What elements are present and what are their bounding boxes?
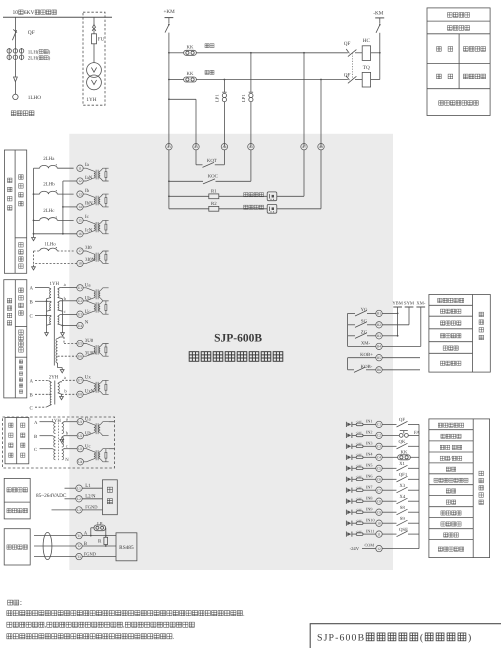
svg-text:YBM: YBM bbox=[392, 300, 402, 305]
terminal U3 bbox=[77, 311, 83, 317]
terminal C6 bbox=[376, 476, 382, 482]
optocoupler (close monitor) bbox=[267, 192, 277, 201]
opto input IN4 bbox=[345, 455, 347, 460]
svg-text:C: C bbox=[30, 314, 33, 320]
terminal C8 bbox=[376, 498, 382, 504]
svg-text:N: N bbox=[85, 320, 89, 326]
svg-text:U1: U1 bbox=[78, 420, 82, 424]
secondary winding c bbox=[58, 317, 59, 325]
svg-text:KOC: KOC bbox=[208, 174, 218, 180]
terminal L1 bbox=[76, 485, 82, 491]
PT branch dashed box bbox=[83, 12, 105, 105]
B wire bbox=[82, 545, 116, 547]
ground bbox=[33, 235, 35, 237]
svg-text:ZG: ZG bbox=[361, 330, 368, 336]
svg-text:SYM: SYM bbox=[404, 300, 414, 305]
terminal U3 (alt) bbox=[77, 446, 83, 452]
terminal C9 bbox=[376, 509, 382, 515]
svg-text:1LH(: 1LH( bbox=[28, 49, 39, 55]
terminal B1 bbox=[376, 310, 382, 316]
opto input IN9 bbox=[345, 510, 347, 515]
svg-text:12: 12 bbox=[377, 547, 381, 551]
wire bbox=[14, 60, 16, 77]
primary winding C bbox=[50, 316, 52, 317]
comm cable wires bbox=[34, 535, 76, 537]
svg-text:16: 16 bbox=[78, 232, 82, 236]
svg-text:FGND: FGND bbox=[84, 551, 97, 556]
notes bbox=[8, 600, 13, 605]
svg-text:IN1: IN1 bbox=[366, 419, 373, 424]
svg-text:17: 17 bbox=[78, 249, 82, 253]
svg-text:KK: KK bbox=[187, 71, 194, 77]
feeder wire bbox=[14, 17, 16, 49]
svg-text:QSE: QSE bbox=[399, 527, 408, 533]
input transformer Ia bbox=[83, 168, 94, 171]
terminal B3 bbox=[376, 333, 382, 339]
terminal A(485) bbox=[76, 532, 82, 538]
svg-text:2LHc: 2LHc bbox=[43, 208, 55, 214]
label box voltage/measuring bbox=[5, 418, 29, 464]
title block border bbox=[310, 623, 501, 625]
L1 wire bbox=[65, 487, 76, 489]
terminal U2 (alt) bbox=[77, 433, 83, 439]
link LP1 to A2 bbox=[241, 94, 246, 102]
terminal L2 bbox=[76, 496, 82, 502]
label main diagram bbox=[11, 111, 16, 116]
svg-text:IN9: IN9 bbox=[366, 506, 373, 511]
label box: comm interface bbox=[4, 529, 30, 565]
svg-text:13: 13 bbox=[78, 192, 82, 196]
label box: working power / grounding bbox=[4, 478, 30, 519]
PT core bbox=[53, 286, 55, 366]
terminal 10 bbox=[376, 520, 382, 526]
svg-text:C: C bbox=[30, 405, 33, 411]
CT 1LH (measuring) bbox=[7, 49, 11, 53]
svg-text:1LHO: 1LHO bbox=[28, 95, 42, 101]
svg-text:C6: C6 bbox=[377, 478, 381, 482]
core bbox=[54, 381, 56, 405]
svg-text:3U0: 3U0 bbox=[85, 338, 94, 344]
svg-text:C2: C2 bbox=[377, 434, 381, 438]
terminal B(485) bbox=[76, 543, 82, 549]
svg-text:C1: C1 bbox=[377, 423, 381, 427]
svg-text:C5: C5 bbox=[377, 467, 381, 471]
svg-text:2LH(: 2LH( bbox=[28, 56, 39, 62]
svg-text:U4: U4 bbox=[78, 324, 82, 328]
ground bbox=[62, 330, 64, 332]
primary winding A-B bbox=[49, 381, 52, 383]
terminal L3 bbox=[76, 507, 82, 513]
PT tap wire bbox=[93, 17, 95, 24]
terminal B4 bbox=[376, 343, 382, 349]
cable shield ellipse bbox=[43, 532, 52, 559]
svg-text:B6: B6 bbox=[377, 368, 381, 372]
svg-text:XM-: XM- bbox=[416, 300, 425, 305]
svg-text:A: A bbox=[30, 379, 34, 385]
opto input IN6 bbox=[345, 477, 347, 482]
primary neutral bus bbox=[46, 299, 48, 331]
secondary winding a bbox=[58, 289, 59, 297]
svg-text:A3: A3 bbox=[194, 145, 198, 149]
svg-text:SG: SG bbox=[361, 319, 368, 325]
svg-text:B3: B3 bbox=[377, 334, 381, 338]
terminal U4 (alt) bbox=[77, 459, 83, 465]
terminal U4 bbox=[77, 322, 83, 328]
svg-text:U2: U2 bbox=[78, 299, 82, 303]
zero-seq CT 1LH0 bbox=[13, 94, 18, 99]
svg-text:QF: QF bbox=[344, 41, 351, 47]
svg-text:S9: S9 bbox=[400, 516, 406, 522]
secondary windings bbox=[62, 423, 64, 433]
PT 1YH two windings bbox=[87, 63, 102, 78]
svg-text:IN3: IN3 bbox=[366, 441, 373, 446]
wire to A8 bbox=[320, 79, 322, 81]
svg-text:+KM: +KM bbox=[164, 9, 176, 15]
input common bus bbox=[418, 424, 420, 548]
svg-text:-24V: -24V bbox=[350, 546, 360, 551]
svg-text:c: c bbox=[66, 444, 68, 449]
svg-text:11: 11 bbox=[377, 532, 381, 536]
svg-text:A8: A8 bbox=[319, 145, 323, 149]
L2 wire bbox=[65, 498, 76, 500]
RS485 module box bbox=[116, 533, 137, 561]
terminal FGND(485) bbox=[76, 553, 82, 559]
trip wire (fen zha) bbox=[168, 79, 170, 81]
svg-text:B4: B4 bbox=[377, 345, 381, 349]
terminal A3 bbox=[193, 144, 199, 150]
svg-text:IN7: IN7 bbox=[366, 484, 373, 489]
terminal U1 bbox=[77, 285, 83, 291]
svg-text:(: ( bbox=[420, 632, 424, 643]
svg-text:IN5: IN5 bbox=[366, 463, 373, 468]
optocoupler (open monitor) bbox=[267, 204, 277, 213]
svg-text:S8: S8 bbox=[400, 505, 406, 511]
input transformer (alt) Ucn bbox=[84, 449, 94, 452]
device body SJP-600B (shaded block) bbox=[69, 134, 393, 570]
ground bbox=[61, 368, 63, 370]
control legend table bbox=[427, 8, 490, 116]
svg-text:B1: B1 bbox=[377, 312, 381, 316]
CT star point bus bbox=[33, 168, 35, 235]
wire to A7 bbox=[303, 52, 305, 54]
svg-text:a: a bbox=[64, 375, 66, 380]
svg-text:B: B bbox=[34, 434, 37, 440]
input transformer 3I0 bbox=[83, 251, 94, 254]
svg-text:U3: U3 bbox=[78, 447, 82, 451]
primary winding A bbox=[49, 288, 52, 290]
earth wire bbox=[52, 509, 76, 511]
terminal B6 bbox=[376, 367, 382, 373]
svg-text:L3: L3 bbox=[77, 508, 81, 512]
svg-text:FGND: FGND bbox=[85, 505, 98, 510]
svg-text:3I0: 3I0 bbox=[85, 245, 92, 251]
svg-text:1LHo: 1LHo bbox=[44, 241, 56, 247]
input transformer Ubc bbox=[83, 301, 94, 304]
terminal A7 bbox=[301, 144, 307, 150]
ground bbox=[46, 330, 48, 332]
svg-text:IN4: IN4 bbox=[366, 452, 373, 457]
terminal U7 bbox=[77, 377, 83, 383]
terminal 11 bbox=[77, 165, 83, 171]
power module box bbox=[103, 480, 118, 515]
svg-text:C9: C9 bbox=[377, 510, 381, 514]
svg-text:LP1: LP1 bbox=[215, 94, 220, 102]
svg-text:c: c bbox=[64, 309, 66, 314]
svg-text:C: C bbox=[34, 447, 37, 453]
svg-text:1YH: 1YH bbox=[86, 97, 96, 103]
A wire bbox=[82, 535, 116, 537]
primary windings bbox=[53, 422, 56, 424]
opto input IN5 bbox=[345, 466, 347, 471]
svg-text:U4: U4 bbox=[78, 460, 82, 464]
cable arrow bbox=[14, 77, 18, 82]
input transformer (alt) Uab bbox=[84, 422, 94, 425]
terminal C5 bbox=[376, 465, 382, 471]
svg-text:RS485: RS485 bbox=[119, 545, 134, 551]
svg-text:C4: C4 bbox=[377, 456, 381, 460]
disconnect arrows bbox=[92, 24, 96, 27]
FGND wire bbox=[82, 556, 116, 558]
phase C return bbox=[34, 233, 77, 235]
terminal 13 bbox=[77, 191, 83, 197]
svg-text:QF1: QF1 bbox=[399, 472, 408, 478]
svg-text:U3: U3 bbox=[78, 312, 82, 316]
svg-text:A1: A1 bbox=[167, 145, 171, 149]
svg-text:Ib: Ib bbox=[85, 188, 90, 194]
terminal 14 bbox=[77, 204, 83, 210]
bus stubs bbox=[393, 306, 402, 308]
svg-text:IN6: IN6 bbox=[366, 474, 373, 479]
opto input IN2 bbox=[345, 433, 347, 438]
svg-text:T2: T2 bbox=[77, 544, 81, 548]
svg-text:11: 11 bbox=[78, 166, 82, 170]
terminal A4 bbox=[221, 144, 227, 150]
svg-text:C8: C8 bbox=[377, 499, 381, 503]
terminal A1 bbox=[166, 144, 172, 150]
terminal C7 bbox=[376, 487, 382, 493]
svg-text:Ux: Ux bbox=[85, 375, 92, 381]
svg-text:YG: YG bbox=[361, 307, 368, 313]
terminal 16 bbox=[77, 231, 83, 237]
knife switch bbox=[165, 24, 169, 33]
svg-text:：: ： bbox=[19, 600, 25, 607]
svg-text:QF: QF bbox=[399, 417, 405, 423]
svg-text:IN10: IN10 bbox=[366, 517, 375, 522]
link LP1 to A4 bbox=[215, 94, 220, 102]
svg-text:A2: A2 bbox=[249, 145, 253, 149]
svg-text:U2: U2 bbox=[78, 434, 82, 438]
primary winding B-C bbox=[49, 393, 52, 395]
common bus for signal contacts bbox=[347, 313, 349, 346]
switch input table bbox=[429, 419, 490, 558]
svg-text:SJP-600B: SJP-600B bbox=[214, 333, 262, 345]
CT 2LH (protection) bbox=[7, 55, 11, 59]
svg-text:KOB-: KOB- bbox=[361, 364, 373, 370]
svg-text:QF: QF bbox=[28, 30, 35, 36]
svg-text:U8: U8 bbox=[78, 393, 82, 397]
label box: current circuit bbox=[4, 150, 26, 273]
svg-text:IN2: IN2 bbox=[366, 430, 373, 435]
opto input IN11 bbox=[345, 532, 347, 537]
phase A return bbox=[63, 180, 77, 182]
svg-text:T3: T3 bbox=[77, 555, 81, 559]
terminal U6 bbox=[77, 353, 83, 359]
svg-text:12: 12 bbox=[78, 179, 82, 183]
svg-text:15: 15 bbox=[78, 219, 82, 223]
bus droppers bbox=[397, 307, 399, 336]
svg-text:-KM: -KM bbox=[373, 10, 383, 16]
terminal U5 bbox=[77, 340, 83, 346]
terminal U2 bbox=[77, 298, 83, 304]
svg-text:A: A bbox=[34, 420, 38, 426]
svg-text:6KV: 6KV bbox=[24, 10, 35, 16]
svg-text:TQ: TQ bbox=[363, 65, 370, 71]
svg-text:LP1: LP1 bbox=[241, 94, 246, 102]
svg-text:U7: U7 bbox=[78, 379, 82, 383]
svg-text:IN8: IN8 bbox=[366, 495, 373, 500]
svg-text:T1: T1 bbox=[77, 534, 81, 538]
terminal A2 bbox=[248, 144, 254, 150]
output circuit table bbox=[429, 295, 490, 373]
input transformer Ic bbox=[83, 220, 94, 223]
terminal B5 bbox=[376, 355, 382, 361]
svg-text:FU: FU bbox=[98, 37, 105, 43]
terminal 17 bbox=[77, 248, 83, 254]
close wire (he zha) bbox=[168, 52, 170, 54]
secondary winding x bbox=[58, 382, 62, 384]
terminal 18 bbox=[77, 260, 83, 266]
secondary winding b bbox=[58, 303, 59, 311]
svg-text:3U0N: 3U0N bbox=[85, 350, 97, 356]
svg-text:U6: U6 bbox=[78, 354, 82, 358]
terminal B2 bbox=[376, 322, 382, 328]
open-delta winding (dashed optional) bbox=[58, 337, 64, 339]
terminal U1 (alt) bbox=[77, 419, 83, 425]
input transformer 3U0 bbox=[83, 344, 94, 347]
terminal 15 bbox=[77, 217, 83, 223]
svg-text:A4: A4 bbox=[222, 145, 226, 149]
svg-text:10: 10 bbox=[377, 521, 381, 525]
terminal C4 bbox=[376, 454, 382, 460]
svg-text:a: a bbox=[64, 282, 66, 287]
svg-text:A: A bbox=[30, 286, 34, 292]
terminal C1 bbox=[376, 421, 382, 427]
optional measuring PT box (dashed) bbox=[3, 417, 115, 468]
svg-text:): ) bbox=[468, 632, 472, 643]
svg-text:C3: C3 bbox=[377, 445, 381, 449]
opto input IN8 bbox=[345, 499, 347, 504]
svg-text:HC: HC bbox=[363, 38, 371, 44]
core (dashed) bbox=[58, 423, 60, 461]
svg-text:2YH: 2YH bbox=[49, 374, 59, 380]
svg-text:L1: L1 bbox=[77, 486, 81, 490]
svg-text:COM: COM bbox=[365, 543, 375, 548]
knife switch bbox=[376, 24, 380, 33]
svg-text:X1: X1 bbox=[399, 461, 405, 467]
svg-text:2LHa: 2LHa bbox=[43, 156, 55, 162]
HV busbar bbox=[3, 16, 112, 18]
svg-text:2LHb: 2LHb bbox=[43, 182, 55, 188]
secondary neutral bus bbox=[62, 299, 64, 331]
terminal 11 bbox=[376, 531, 382, 537]
opto input IN1 bbox=[345, 422, 347, 427]
svg-text:U1: U1 bbox=[78, 286, 82, 290]
ground bbox=[61, 437, 63, 439]
svg-text:B5: B5 bbox=[377, 356, 381, 360]
svg-text:B2: B2 bbox=[377, 323, 381, 327]
svg-text:85~264VADC: 85~264VADC bbox=[36, 493, 67, 499]
ground (dashed branch) bbox=[33, 265, 35, 267]
svg-text:A7: A7 bbox=[302, 145, 306, 149]
svg-text:a: a bbox=[66, 417, 68, 422]
fuse FU bbox=[92, 34, 97, 44]
svg-text:N: N bbox=[65, 457, 69, 463]
terminal C12 bbox=[376, 545, 382, 551]
terminal 12 bbox=[77, 178, 83, 184]
breaker QF bbox=[12, 30, 16, 40]
svg-text:C7: C7 bbox=[377, 488, 381, 492]
svg-text:U5: U5 bbox=[78, 342, 82, 346]
input transformer Ux bbox=[83, 380, 94, 383]
svg-text:1YH: 1YH bbox=[52, 418, 62, 424]
svg-text:14: 14 bbox=[78, 205, 82, 209]
opto input IN10 bbox=[345, 521, 347, 526]
terminal C3 bbox=[376, 443, 382, 449]
input transformer Ib bbox=[83, 194, 94, 197]
svg-text:10: 10 bbox=[13, 10, 19, 16]
svg-text:IN11: IN11 bbox=[366, 528, 374, 533]
svg-text:SJP-600B: SJP-600B bbox=[317, 632, 365, 643]
terminal A8 bbox=[318, 144, 324, 150]
svg-text:XM-: XM- bbox=[361, 341, 371, 347]
branch to A3 bbox=[168, 98, 170, 100]
primary winding B bbox=[50, 301, 52, 302]
terminal C2 bbox=[376, 432, 382, 438]
label box: voltage circuit bbox=[4, 280, 27, 398]
svg-text:L2: L2 bbox=[77, 497, 81, 501]
input transformer Uab bbox=[83, 288, 94, 291]
opto input IN7 bbox=[345, 488, 347, 493]
terminal U8 bbox=[77, 391, 83, 397]
phase B return bbox=[63, 206, 77, 208]
svg-text:KK: KK bbox=[187, 45, 194, 51]
svg-text:18: 18 bbox=[78, 262, 82, 266]
opto input IN3 bbox=[345, 444, 347, 449]
